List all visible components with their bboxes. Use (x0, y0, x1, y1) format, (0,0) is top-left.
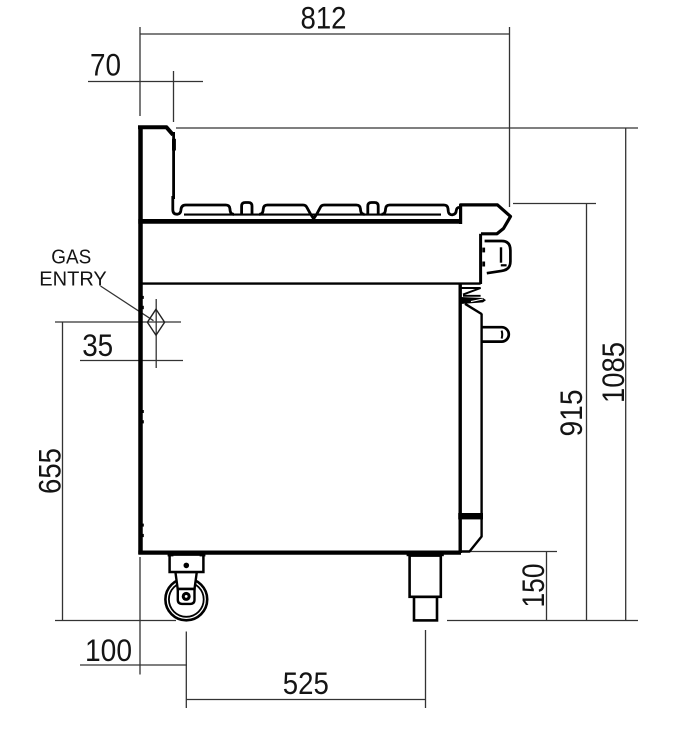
dimension line 150 (546, 552, 548, 621)
castor mounting plate (170, 555, 204, 572)
wheel outer rim (165, 579, 207, 621)
ground extension line right (447, 620, 638, 622)
extension line door bottom for 150 (470, 551, 557, 553)
burner grate profile (173, 196, 460, 219)
backsplash right edge (172, 132, 175, 199)
leader line gas entry (101, 286, 154, 321)
castor fork (175, 572, 196, 589)
leg flange left (407, 553, 414, 557)
ground extension line left (55, 620, 176, 622)
oven door hinge detail (461, 288, 481, 296)
plate bolt dot (184, 563, 190, 569)
left wall of body (138, 126, 143, 555)
extension line right of 812 (509, 27, 511, 207)
body bottom line (138, 550, 461, 554)
oven door face (461, 314, 482, 552)
wheel hub (182, 592, 191, 601)
dimension line 915 (586, 204, 588, 621)
knob base ticks (482, 248, 485, 253)
svg-text:655: 655 (32, 448, 68, 494)
svg-text:100: 100 (85, 632, 132, 668)
extension line leg centre (425, 630, 427, 708)
dimension line 1085 (625, 128, 627, 621)
extension line gas entry for 655 (55, 321, 181, 323)
dimension line 655 (62, 322, 64, 621)
svg-text:ENTRY: ENTRY (39, 269, 107, 291)
extension line wheel centre (185, 632, 187, 709)
leg flange right (437, 553, 444, 557)
door top chamfer (465, 304, 482, 314)
dimension line 525 (186, 699, 425, 701)
svg-text:35: 35 (82, 327, 113, 363)
plate corner bolts (168, 552, 174, 556)
castor hub housing (178, 589, 195, 604)
gas entry diamond symbol (147, 309, 164, 335)
door handle (482, 327, 509, 341)
extension line 70 right (173, 71, 175, 122)
control panel face (479, 234, 482, 284)
dimension line 812 (140, 33, 510, 35)
front nose trim (461, 205, 511, 234)
extension line body left for 100 (139, 557, 141, 675)
dimension line 70 (88, 81, 203, 83)
control knob (485, 241, 511, 273)
svg-text:525: 525 (283, 665, 329, 701)
backsplash top edge (138, 127, 173, 135)
door lower hinge bar (458, 513, 483, 519)
backsplash side tab (172, 139, 176, 151)
dimension line 35 (80, 360, 183, 362)
grate under line (184, 214, 441, 216)
dimension line 100 (80, 664, 187, 666)
control panel bottom line (140, 282, 481, 284)
leg foot (414, 597, 437, 621)
extension line nose top for 915 (513, 203, 596, 205)
svg-text:1085: 1085 (595, 342, 631, 403)
gas inlet nubs on wall (142, 296, 144, 299)
svg-text:150: 150 (515, 564, 551, 608)
extension line top for 1085 (176, 127, 638, 129)
svg-text:915: 915 (553, 390, 589, 437)
wheel inner rim (169, 582, 204, 617)
svg-text:812: 812 (301, 0, 347, 36)
svg-text:70: 70 (90, 47, 121, 83)
oven front face (459, 284, 462, 553)
svg-text:GAS: GAS (51, 246, 91, 268)
leg upper section (410, 556, 441, 621)
cooktop surface line (138, 219, 461, 224)
gas entry axis line (155, 299, 157, 368)
extension line left of 812 (139, 27, 141, 116)
